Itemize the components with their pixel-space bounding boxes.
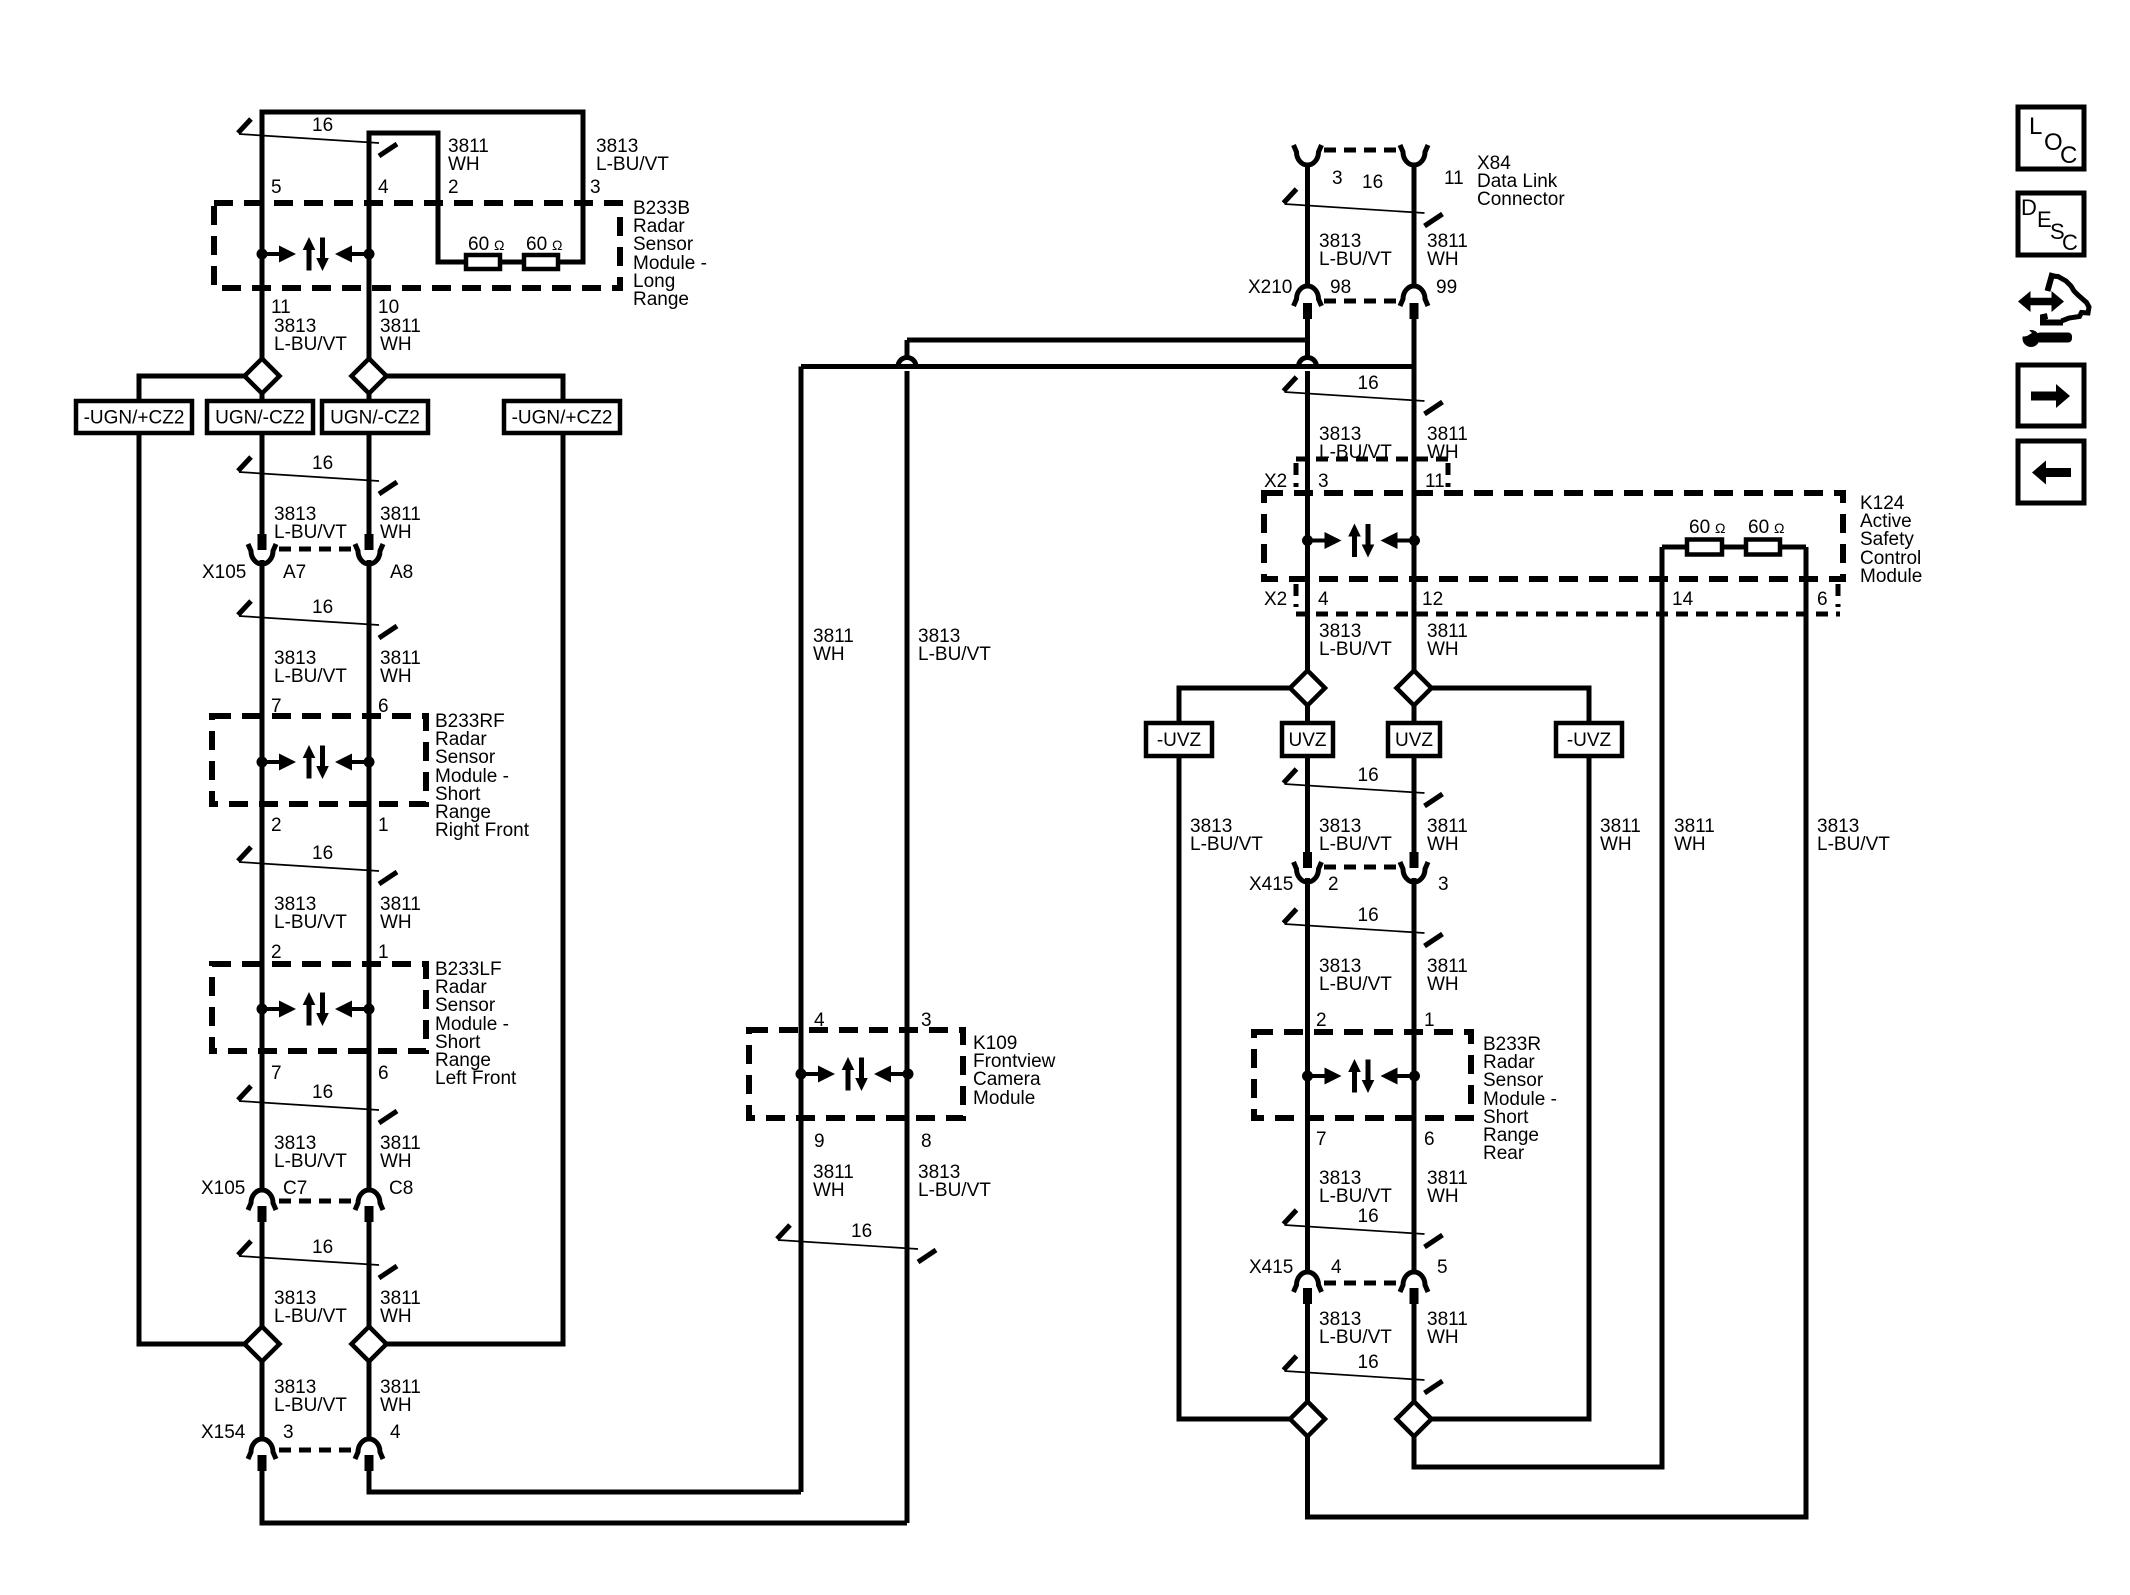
icon box DESC [2018,193,2084,255]
svg-text:Module: Module [973,1088,1035,1109]
wire 3813 camera riser upper part [905,340,910,358]
CAN bus symbol inside B233LF [257,992,375,1026]
net box -UVZ left [1146,723,1212,756]
svg-text:5: 5 [1437,1257,1448,1278]
splice diamond lower right 3811 [1397,1402,1432,1437]
svg-text:Right Front: Right Front [435,820,530,841]
svg-text:7: 7 [1316,1129,1327,1150]
svg-text:L-BU/VT: L-BU/VT [274,522,347,543]
svg-text:98: 98 [1330,277,1351,298]
svg-text:X415: X415 [1249,874,1293,895]
svg-text:5: 5 [271,177,282,198]
twisted pair symbol 16 below UVZ boxes [1284,765,1443,806]
svg-text:A7: A7 [283,562,306,583]
svg-text:-UVZ: -UVZ [1567,730,1612,751]
wire from 60 ohm resistor #2 K124 [1780,545,1806,550]
splice diamond lower left 3811 [352,1327,387,1362]
svg-text:A8: A8 [390,562,413,583]
icon box LOC [2018,107,2084,169]
svg-text:WH: WH [1427,974,1459,995]
module B233R Radar Sensor Module - Short Range Rear dashed box [1254,1032,1471,1118]
connector dashed line X84 [1324,148,1397,153]
resistor 60 ohm #1 in B233B [466,255,500,269]
svg-text:L-BU/VT: L-BU/VT [1319,974,1392,995]
svg-text:X2: X2 [1264,471,1287,492]
wire hop 3813 riser over 3811 horizontal [898,358,916,367]
svg-text:C: C [2062,230,2078,255]
svg-text:WH: WH [1600,834,1632,855]
svg-text:X210: X210 [1248,277,1292,298]
wire to 60 ohm resistor #1 K124 [1662,545,1687,550]
svg-text:WH: WH [1427,249,1459,270]
svg-text:4: 4 [390,1422,401,1443]
wire 3813 main right drop to K124 pin6 via bottom run [1308,371,1807,1517]
wire 3811 camera riser through K109 pin4/pin9 [799,367,804,1493]
svg-text:60: 60 [526,234,547,255]
module B233LF Radar Sensor Module - Short Range Left Front dashed box [212,964,426,1051]
svg-text:Safety: Safety [1860,529,1914,550]
twisted pair symbol 16 below UGN boxes [238,453,397,494]
wire between 60 ohm resistors K124 [1722,545,1746,550]
terminal below X415 pin5 [1410,1288,1419,1304]
twisted pair symbol 16 inside X84 drop [1284,189,1443,226]
wire 3813 L-BU/VT horizontal run camera to X210/X2 net [907,338,1308,343]
svg-text:WH: WH [380,1306,412,1327]
connector cup X105 A7 [248,544,276,564]
splice diamond left 3811 [352,359,387,394]
connector X2 upper left tick [1294,463,1299,487]
twisted pair symbol 16 above B233B [238,115,397,156]
svg-text:Sensor: Sensor [633,234,694,255]
svg-text:D: D [2021,195,2037,220]
svg-text:Sensor: Sensor [1483,1070,1544,1091]
twisted pair symbol 16 below B233RF [238,843,397,884]
svg-text:3: 3 [1438,874,1449,895]
splice diamond left 3813 [245,359,280,394]
svg-text:C8: C8 [389,1178,413,1199]
connector dashed line X105 C7-C8 [279,1199,352,1204]
net box UVZ right [1388,723,1440,756]
svg-text:L-BU/VT: L-BU/VT [596,154,669,175]
connector cup X154 pin4 [355,1439,383,1459]
net box -UGN/+CZ2 far left [76,401,192,433]
connector cup X105 C7 [248,1190,276,1210]
svg-text:Ω: Ω [552,237,562,253]
svg-text:Sensor: Sensor [435,747,496,768]
svg-text:14: 14 [1672,589,1694,610]
connector cup X415 pin2 [1294,862,1322,882]
twisted pair symbol 16 below X105 A row [238,597,397,638]
svg-text:2: 2 [1316,1010,1327,1031]
svg-text:WH: WH [1674,834,1706,855]
resistor 60 ohm #2 in K124 [1746,540,1780,555]
wire between 60 ohm resistors in B233B [500,260,524,265]
net box -UVZ right [1556,723,1622,756]
module B233B Radar Sensor Module - Long Range dashed box [214,203,620,288]
icon box arrow left [2018,441,2084,503]
module K109 Frontview Camera Module dashed box [749,1030,963,1118]
connector dashed line X105 A7-A8 [279,547,352,552]
svg-text:2: 2 [1328,874,1339,895]
svg-text:WH: WH [380,912,412,933]
svg-text:L-BU/VT: L-BU/VT [1817,834,1890,855]
terminal below X105 C7 [258,1206,267,1222]
svg-text:X2: X2 [1264,589,1287,610]
connector cup X210 pin99 [1400,286,1428,306]
connector cup X105 C8 [355,1190,383,1210]
svg-text:1: 1 [1424,1010,1435,1031]
svg-text:60: 60 [468,234,489,255]
svg-text:L-BU/VT: L-BU/VT [918,644,991,665]
icon vehicle diagnostic (double arrow, car outline, wrench) [2018,273,2089,347]
resistor 60 ohm #2 in B233B [524,255,558,269]
svg-text:10: 10 [378,297,399,318]
svg-text:UGN/-CZ2: UGN/-CZ2 [330,408,420,429]
svg-text:11: 11 [1425,471,1445,492]
svg-text:WH: WH [813,1180,845,1201]
svg-text:60: 60 [1748,517,1769,538]
svg-text:X154: X154 [201,1422,246,1443]
wire diamond splice to left -UGN/+CZ2 box [139,376,245,401]
svg-text:8: 8 [921,1131,932,1152]
CAN bus symbol inside B233R [1302,1059,1420,1093]
svg-text:L-BU/VT: L-BU/VT [1319,1186,1392,1207]
connector X2 upper dashed top line [1296,457,1450,462]
svg-text:Ω: Ω [1715,520,1725,536]
svg-text:L-BU/VT: L-BU/VT [274,1306,347,1327]
svg-text:WH: WH [1427,834,1459,855]
svg-text:4: 4 [1331,1257,1342,1278]
svg-text:UVZ: UVZ [1395,730,1433,751]
svg-text:9: 9 [814,1131,825,1152]
svg-text:Connector: Connector [1477,189,1565,210]
wire left -UGN/+CZ2 net down to lower splice [139,433,245,1344]
svg-text:6: 6 [1424,1129,1435,1150]
connector cup X84 pin11 [1400,145,1428,165]
connector cup X84 pin3 [1294,145,1322,165]
net box UVZ left [1282,723,1333,756]
connector cup X415 pin5 [1400,1272,1428,1292]
resistor 60 ohm #1 in K124 [1687,540,1722,555]
terminal below X210 pin98 [1303,303,1312,319]
svg-text:4: 4 [1318,589,1329,610]
svg-text:L-BU/VT: L-BU/VT [274,334,347,355]
svg-text:Ω: Ω [1774,520,1784,536]
svg-text:11: 11 [271,297,291,318]
twisted pair symbol 16 below X105 C row [238,1237,397,1278]
wire diamond splice to right -UGN/+CZ2 box [387,376,564,401]
wire 3813 camera riser through K109 pin3/pin8 [905,371,910,1523]
wire 3811 WH left net: B233B pin2 loop, pin4 down to X154 pin4 and bottom run to camera riser [369,133,801,1492]
svg-text:WH: WH [1427,1186,1459,1207]
svg-text:Camera: Camera [973,1069,1041,1090]
connector X2 upper right tick [1446,463,1451,487]
connector dashed line X415 lower [1324,1281,1397,1286]
svg-text:L-BU/VT: L-BU/VT [1190,834,1263,855]
twisted pair symbol 16 above lower right splices [1284,1352,1443,1393]
terminal at X105 A7 [258,534,267,550]
svg-text:WH: WH [380,522,412,543]
connector X2 lower right tick [1836,584,1841,607]
CAN bus symbol inside K124 [1302,524,1420,558]
svg-text:-UVZ: -UVZ [1157,730,1202,751]
wire left -UVZ net down to lower splice [1179,756,1290,1419]
connector dashed line X154 [279,1448,352,1453]
svg-text:7: 7 [271,1063,282,1084]
wire 3813 L-BU/VT from X84 pin3 through X210 pin98 [1305,164,1310,358]
svg-text:12: 12 [1422,589,1443,610]
svg-text:WH: WH [448,154,480,175]
CAN bus symbol inside B233B [257,237,375,271]
svg-text:99: 99 [1436,277,1457,298]
wire splice to left -UVZ box [1179,688,1290,723]
svg-text:L-BU/VT: L-BU/VT [274,1395,347,1416]
svg-text:UVZ: UVZ [1289,730,1327,751]
svg-text:WH: WH [1427,1327,1459,1348]
svg-text:60: 60 [1689,517,1710,538]
wire 3813 L-BU/VT left net: B233B pin3 loop, pin5 down through B233RF/B233LF to X154 pin3 and bottom run to camera riser [262,112,907,1523]
connector cup X105 A8 [355,544,383,564]
svg-text:UGN/-CZ2: UGN/-CZ2 [215,408,305,429]
twisted pair symbol 16 below B233R [1284,1206,1443,1247]
wire hop 3813 over 3811 horizontal at junction [1299,358,1317,367]
CAN bus symbol inside B233RF [257,745,375,779]
splice diamond lower right 3813 [1290,1402,1325,1437]
CAN bus symbol inside K109 [796,1057,914,1091]
connector cup X415 pin3 [1400,862,1428,882]
twisted pair symbol 16 below B233LF [238,1082,397,1123]
wire right -UVZ net down to lower splice [1432,756,1590,1419]
terminal at X415 pin2 [1303,852,1312,868]
svg-text:Left Front: Left Front [435,1068,517,1089]
svg-text:16: 16 [1362,172,1383,193]
connector cup X415 pin4 [1294,1272,1322,1292]
svg-text:L-BU/VT: L-BU/VT [274,1151,347,1172]
module B233RF Radar Sensor Module - Short Range Right Front dashed box [212,716,426,804]
terminal below X210 pin99 [1410,303,1419,319]
svg-text:6: 6 [1817,589,1828,610]
svg-text:WH: WH [380,1395,412,1416]
svg-text:WH: WH [813,644,845,665]
svg-text:L-BU/VT: L-BU/VT [1319,1327,1392,1348]
svg-text:WH: WH [380,1151,412,1172]
net box UGN/-CZ2 left [207,401,313,433]
module K124 Active Safety Control Module dashed box [1264,493,1843,579]
svg-text:2: 2 [271,815,282,836]
wire 3811 WH horizontal run camera to X210/X2 net [801,364,1414,369]
svg-text:L-BU/VT: L-BU/VT [274,912,347,933]
svg-text:Sensor: Sensor [435,995,496,1016]
connector dashed line X210 [1324,299,1397,304]
svg-text:L-BU/VT: L-BU/VT [918,1180,991,1201]
splice diamond lower left 3813 [245,1327,280,1362]
connector cup X210 pin98 [1294,286,1322,306]
svg-text:Range: Range [633,289,689,310]
splice diamond right 3813 upper [1290,671,1325,706]
terminal below X415 pin4 [1303,1288,1312,1304]
svg-text:WH: WH [380,666,412,687]
svg-text:C: C [2060,142,2077,169]
wire splice to right -UVZ box [1432,688,1590,723]
terminal at X415 pin3 [1410,852,1419,868]
svg-text:2: 2 [271,942,282,963]
connector cup X154 pin3 [248,1439,276,1459]
svg-text:1: 1 [378,815,389,836]
svg-text:L-BU/VT: L-BU/VT [1319,834,1392,855]
svg-text:Ω: Ω [494,237,504,253]
connector X2 lower dashed bottom line [1296,612,1840,617]
wire 3811 WH from X84 pin11 down, bottom run to K124 pin14 [1414,164,1662,1467]
net box -UGN/+CZ2 right [504,401,620,433]
svg-text:L-BU/VT: L-BU/VT [274,666,347,687]
svg-text:6: 6 [378,1063,389,1084]
svg-text:4: 4 [378,177,389,198]
terminal below X105 C8 [365,1206,374,1222]
svg-text:L-BU/VT: L-BU/VT [1319,249,1392,270]
svg-text:1: 1 [378,942,389,963]
svg-text:-UGN/+CZ2: -UGN/+CZ2 [84,408,185,429]
twisted pair symbol 16 below X210 [1284,373,1443,414]
terminal at X105 A8 [365,534,374,550]
svg-text:WH: WH [380,334,412,355]
terminal below X154 pin4 [365,1455,374,1471]
svg-text:L: L [2029,113,2042,140]
terminal below X154 pin3 [258,1455,267,1471]
svg-text:3: 3 [590,177,601,198]
svg-text:L-BU/VT: L-BU/VT [1319,639,1392,660]
splice diamond right 3811 upper [1397,671,1432,706]
twisted pair symbol 16 below K109 [777,1221,936,1262]
svg-text:X415: X415 [1249,1257,1293,1278]
connector X2 lower left tick [1294,584,1299,607]
svg-text:11: 11 [1444,168,1464,189]
connector dashed line X415 upper [1324,865,1397,870]
wire right -UGN/+CZ2 net down to lower splice [387,433,564,1344]
svg-text:-UGN/+CZ2: -UGN/+CZ2 [512,408,613,429]
icon box arrow right [2018,365,2084,426]
svg-text:3: 3 [1318,471,1329,492]
svg-text:2: 2 [448,177,459,198]
svg-text:X105: X105 [201,1178,245,1199]
svg-text:3: 3 [1332,168,1343,189]
twisted pair symbol 16 below X415 upper [1284,905,1443,946]
net box UGN/-CZ2 right [322,401,428,433]
svg-text:3: 3 [283,1422,294,1443]
svg-text:Module: Module [1860,566,1922,587]
svg-text:Rear: Rear [1483,1143,1525,1164]
svg-text:X105: X105 [202,562,246,583]
svg-text:C7: C7 [283,1178,307,1199]
svg-text:WH: WH [1427,639,1459,660]
